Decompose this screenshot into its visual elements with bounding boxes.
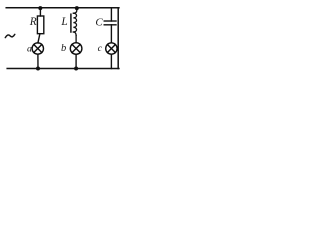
wire capacitor to lamp c — [110, 25, 112, 43]
svg-text:C: C — [95, 17, 103, 29]
wire L branch upper stub — [73, 8, 76, 13]
svg-text:c: c — [98, 43, 103, 54]
svg-text:R: R — [29, 16, 37, 28]
AC source ~ — [5, 34, 15, 37]
wire C branch upper stub — [110, 8, 112, 21]
capacitor C bottom plate — [104, 24, 116, 26]
wire lamp b to bottom bus — [75, 54, 77, 68]
lamp c — [106, 43, 117, 54]
wire coil lower hook — [73, 32, 76, 35]
wire R branch upper stub — [39, 8, 41, 16]
lamp a — [32, 43, 43, 54]
wire bottom bus — [7, 67, 119, 69]
lamp b — [70, 43, 82, 55]
svg-text:b: b — [61, 43, 66, 54]
node top of R branch — [38, 6, 42, 10]
inductor L core line — [70, 14, 72, 32]
node top of L branch — [75, 6, 79, 10]
wire lamp c to bottom bus — [110, 54, 112, 68]
node bottom of R branch — [36, 66, 40, 70]
wire coil to lamp b — [75, 35, 77, 42]
svg-text:L: L — [60, 16, 67, 28]
node bottom of L branch — [74, 67, 78, 71]
svg-text:a: a — [27, 43, 32, 54]
wire lamp a to bottom bus — [37, 54, 39, 68]
inductor L coil bumps — [73, 13, 76, 32]
capacitor C top plate — [104, 20, 116, 22]
wire top bus — [6, 7, 119, 9]
resistor R1 box — [37, 16, 43, 34]
wire right side — [117, 8, 119, 69]
wire R box to lamp a — [38, 34, 40, 43]
